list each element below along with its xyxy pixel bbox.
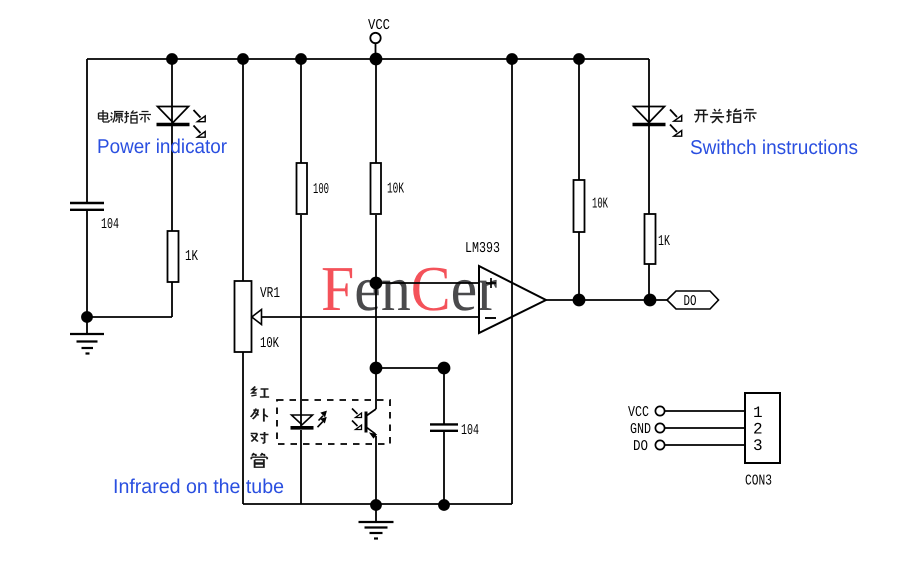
svg-text:Power indicator: Power indicator: [97, 136, 227, 158]
label Chinese switch indicator 开关指示: [694, 109, 756, 123]
wire op-amp power vertical: [511, 59, 513, 504]
svg-text:1K: 1K: [658, 233, 670, 250]
wire GND to pin 2: [665, 427, 745, 429]
wire R3 top: [375, 59, 377, 163]
node dot bottom ground: [371, 500, 381, 510]
wire DO to pin 3: [665, 444, 745, 446]
node dot left ground: [82, 312, 92, 322]
node dot top rail x243: [238, 54, 248, 64]
resistor R1 1K: [168, 231, 199, 282]
node dot top rail x301: [296, 54, 306, 64]
node dot top rail x512: [507, 54, 517, 64]
node dot top rail x172: [167, 54, 177, 64]
node dot top rail x579: [574, 54, 584, 64]
char zhi3b: [727, 109, 742, 123]
svg-text:DO: DO: [684, 293, 697, 310]
node dot output x579: [574, 295, 585, 306]
wire plus node down: [375, 283, 377, 368]
wire LED2 to R5: [648, 124, 650, 214]
phototransistor Q1: [352, 409, 376, 438]
pin circle VCC: [655, 406, 664, 415]
wire phototransistor emitter down: [375, 436, 377, 505]
wire op-amp plus input: [376, 282, 479, 284]
svg-text:10K: 10K: [260, 335, 279, 352]
svg-text:Infrared on the tube: Infrared on the tube: [113, 476, 284, 498]
LED D3 infrared emitter: [291, 411, 327, 427]
wire VR1 top: [242, 59, 244, 281]
wire ground horizontal: [87, 316, 172, 318]
char wai: [251, 409, 268, 422]
svg-text:CON3: CON3: [745, 473, 772, 490]
char hong: [251, 387, 269, 398]
wire VCC to pin 1: [665, 410, 745, 412]
char dui: [251, 432, 269, 444]
capacitor C2 104: [430, 422, 479, 439]
char guan: [710, 109, 724, 123]
node dot output x650: [645, 295, 656, 306]
watermark FenCer: [321, 253, 497, 324]
wire LED1 top: [171, 59, 173, 124]
svg-text:VR1: VR1: [260, 285, 280, 302]
svg-text:10K: 10K: [387, 181, 404, 198]
resistor R4 10K: [574, 180, 609, 232]
pin circle GND: [655, 423, 664, 432]
svg-text:10K: 10K: [592, 196, 608, 213]
wire LED2 top: [648, 59, 650, 124]
wire cap2 top: [443, 368, 445, 424]
wire op-amp minus input: [251, 316, 479, 318]
node dot mid junction right: [439, 363, 450, 374]
node dot VCC junction: [371, 54, 382, 65]
connector body: [745, 393, 780, 463]
svg-text:104: 104: [101, 216, 119, 233]
wire left vertical (cap to ground): [86, 210, 88, 317]
svg-text:VCC: VCC: [368, 17, 390, 34]
resistor R5 1K: [645, 214, 671, 264]
resistor R2 100: [297, 163, 330, 214]
capacitor C1 104: [70, 203, 119, 233]
char kai: [694, 110, 708, 122]
net label DO output hexagon: [667, 291, 719, 310]
char guan3: [251, 453, 267, 467]
wire VCC stub: [375, 43, 377, 59]
wire to phototransistor: [375, 368, 377, 409]
label Chinese infrared pair 红外对管: [251, 387, 269, 468]
wire R4 bottom: [578, 232, 580, 300]
svg-text:1K: 1K: [185, 248, 198, 265]
wire left vertical (top to cap): [86, 59, 88, 203]
wire R3 to plus node: [375, 215, 377, 283]
wire VR1 bottom: [242, 352, 244, 504]
node dot bottom cap2: [439, 500, 449, 510]
wire mid horizontal to cap2: [376, 367, 444, 369]
potentiometer VR1 10K: [235, 281, 281, 352]
svg-text:DO: DO: [633, 438, 648, 455]
char zhi3: [125, 111, 138, 124]
ground left: [70, 317, 104, 354]
char shi4b: [743, 110, 756, 122]
svg-text:GND: GND: [630, 421, 651, 438]
svg-text:VCC: VCC: [628, 404, 649, 421]
svg-text:1: 1: [753, 404, 763, 422]
wire R5 bottom: [648, 264, 650, 300]
connector CON3: [628, 393, 780, 490]
svg-text:LM393: LM393: [465, 240, 500, 257]
svg-text:FenCer: FenCer: [321, 253, 497, 324]
node dot plus input: [371, 278, 382, 289]
wire R2 top: [300, 59, 302, 163]
char shi4: [139, 112, 151, 123]
power VCC terminal: [368, 17, 390, 43]
svg-text:100: 100: [313, 181, 329, 198]
wire R2 to IR LED: [300, 215, 302, 428]
resistor R3 10K: [371, 163, 405, 214]
svg-text:104: 104: [461, 422, 479, 439]
svg-text:Swithch instructions: Swithch instructions: [690, 137, 858, 159]
char yuan: [111, 112, 124, 124]
node dot mid junction left: [371, 363, 382, 374]
wire LED1 to R1: [171, 124, 173, 231]
LED D2 switch indicator: [633, 107, 682, 137]
wire op-amp output: [546, 299, 667, 301]
label Chinese power indicator 电源指示: [99, 110, 152, 123]
wire IR LED bottom: [300, 430, 302, 504]
svg-text:2: 2: [753, 421, 763, 439]
wire bottom rail: [243, 503, 512, 505]
op-amp U1 LM393: [465, 240, 546, 333]
char dian: [99, 110, 110, 122]
LED D1 power indicator: [157, 107, 206, 138]
ground bottom: [359, 505, 394, 539]
wire R4 top: [578, 59, 580, 180]
wire R1 bottom: [171, 282, 173, 317]
pin circle DO: [655, 440, 664, 449]
wire cap2 bottom: [443, 431, 445, 505]
svg-text:3: 3: [753, 437, 763, 455]
dashed box IR pair: [277, 400, 390, 444]
wire top rail: [87, 58, 649, 60]
